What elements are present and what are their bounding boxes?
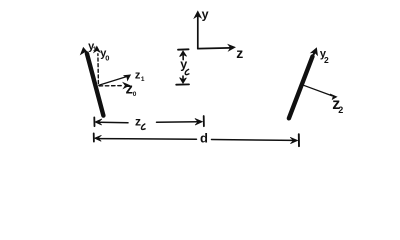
svg-text:0: 0: [133, 91, 137, 98]
svg-text:y: y: [202, 7, 209, 21]
svg-text:1: 1: [141, 76, 145, 83]
svg-text:d: d: [200, 131, 208, 146]
svg-text:z: z: [236, 45, 243, 61]
svg-text:y: y: [180, 57, 187, 71]
svg-text:1: 1: [93, 46, 97, 53]
svg-text:2: 2: [324, 55, 329, 65]
svg-text:2: 2: [338, 105, 343, 115]
svg-text:0: 0: [105, 54, 109, 63]
svg-text:z: z: [135, 115, 141, 129]
